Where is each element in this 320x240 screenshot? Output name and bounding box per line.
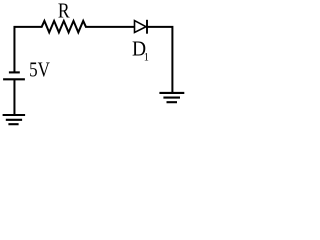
svg-text:R: R — [58, 0, 70, 23]
svg-text:5V: 5V — [29, 59, 50, 82]
svg-text:1: 1 — [144, 51, 149, 64]
